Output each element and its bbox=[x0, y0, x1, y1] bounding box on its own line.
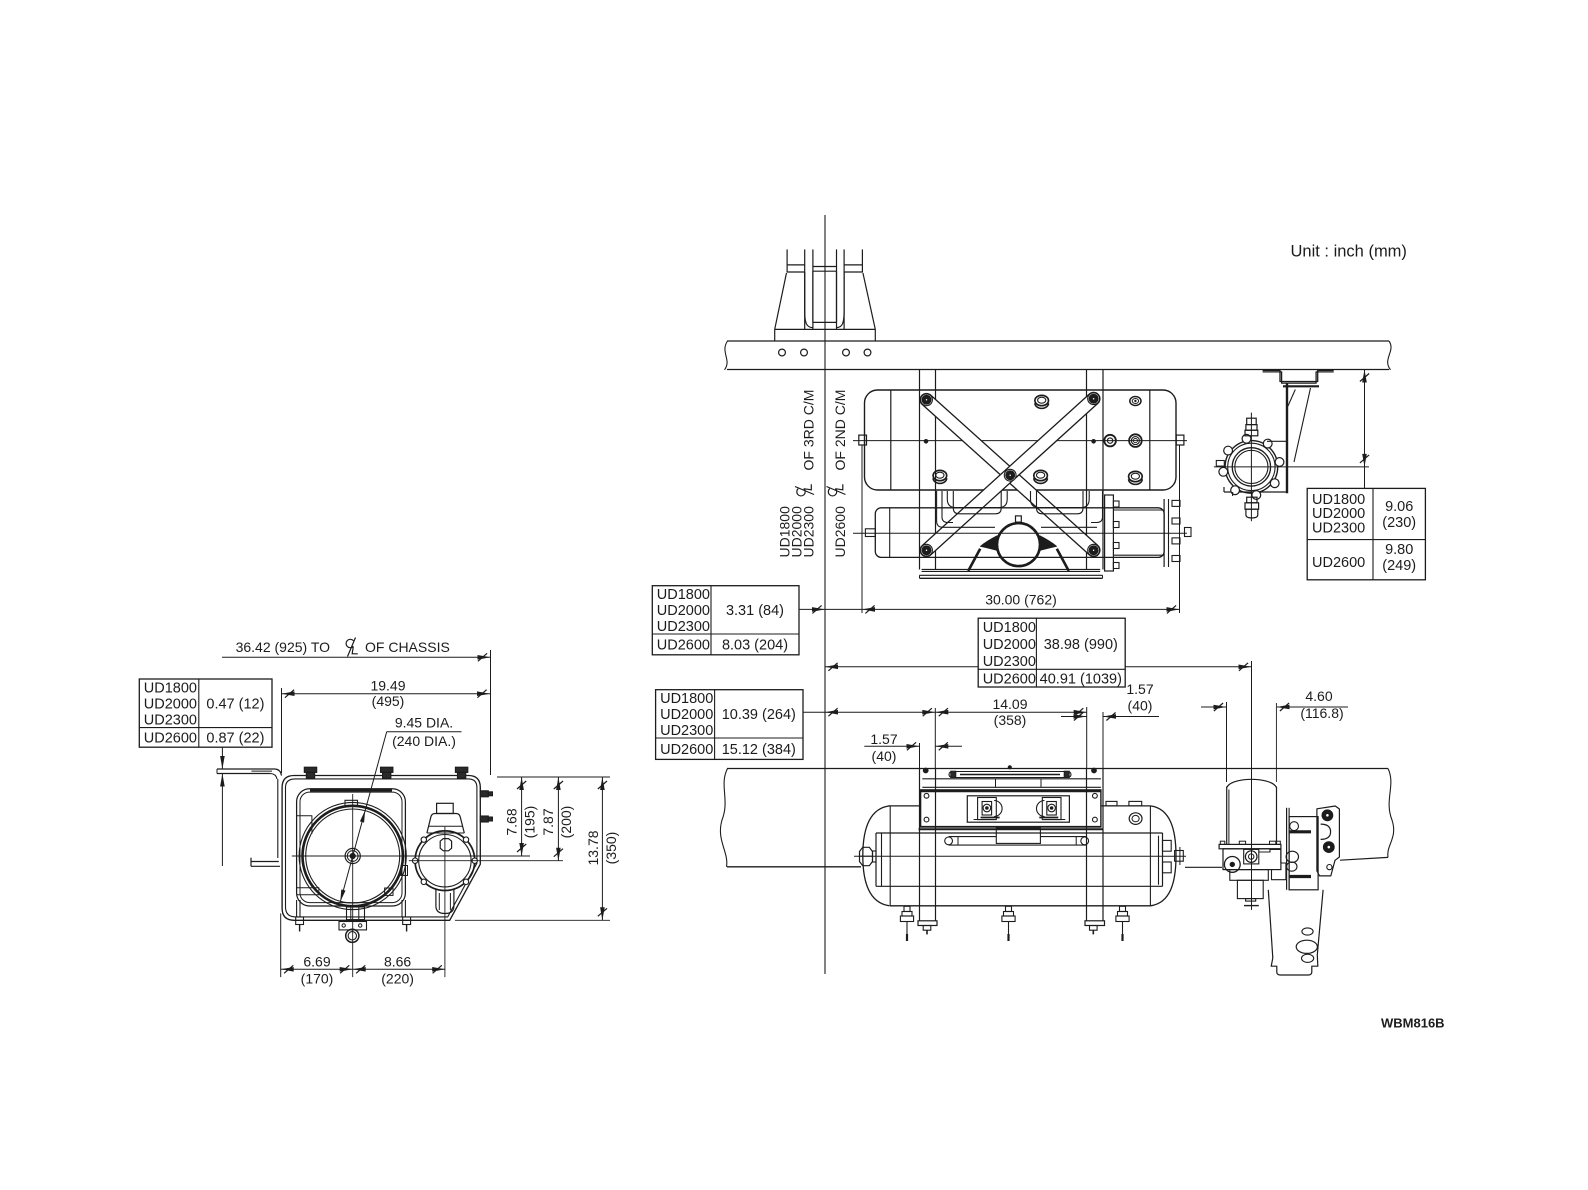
center drain (left view) bbox=[347, 907, 365, 920]
bracket vertical face bbox=[277, 779, 279, 858]
svg-text:3.31 (84): 3.31 (84) bbox=[726, 603, 784, 619]
svg-text:UD1800: UD1800 bbox=[144, 680, 197, 696]
governor right steps bbox=[1259, 849, 1286, 879]
svg-text:(195): (195) bbox=[522, 806, 538, 839]
saddle lens on tank top bbox=[949, 772, 1071, 778]
tank saddle frame (left view) bbox=[297, 789, 406, 906]
svg-text:UD2600: UD2600 bbox=[660, 742, 713, 758]
svg-text:UD2300: UD2300 bbox=[144, 713, 197, 729]
tank oval port bbox=[1129, 813, 1142, 825]
dryer centerline bbox=[1251, 779, 1253, 910]
svg-text:(240 DIA.): (240 DIA.) bbox=[392, 733, 456, 749]
rail bolt holes bbox=[779, 349, 786, 356]
dim 10.39 + 14.09 line bbox=[803, 711, 1087, 713]
upper tank centerline bbox=[853, 440, 1187, 442]
side rail right break bbox=[1388, 769, 1394, 858]
main vertical centerline (C/L of C/M) bbox=[824, 215, 826, 974]
svg-text:UD2600: UD2600 bbox=[657, 638, 710, 654]
bracket block bbox=[1289, 817, 1318, 890]
strap foot plugs (left view) bbox=[296, 917, 304, 925]
upper air tank (top view) bbox=[865, 390, 1177, 490]
svg-text:7.87: 7.87 bbox=[540, 808, 556, 835]
tank mounting straps (top view) bbox=[919, 370, 921, 570]
flanged port (gladhand) on bracket bbox=[1225, 441, 1278, 494]
rail left break line bbox=[725, 341, 728, 370]
svg-text:(350): (350) bbox=[603, 832, 619, 865]
main air tank (side view) bbox=[889, 805, 921, 807]
front tank right fitting bbox=[1175, 851, 1184, 862]
bell wings bbox=[981, 536, 999, 551]
left view extension lines bbox=[497, 776, 610, 778]
dim 36.42 TO C/L OF CHASSIS bbox=[222, 656, 491, 658]
tank ports bbox=[1035, 395, 1049, 405]
base plate bbox=[922, 569, 1101, 571]
governor pulley bbox=[1224, 857, 1240, 873]
chassis rail (side view) bbox=[727, 768, 1388, 770]
flange bracket plate bbox=[1286, 383, 1288, 493]
svg-text:4.60: 4.60 bbox=[1305, 688, 1332, 704]
side rail left break bbox=[720, 769, 727, 867]
svg-text:13.78: 13.78 bbox=[585, 830, 601, 865]
dim 1.57 right bbox=[1061, 716, 1087, 718]
svg-text:(200): (200) bbox=[558, 806, 574, 839]
dim 30.00 (762) bbox=[861, 445, 863, 613]
svg-text:9.45 DIA.: 9.45 DIA. bbox=[395, 715, 453, 731]
drain valves bbox=[904, 906, 910, 911]
governor lower blocks bbox=[1230, 870, 1269, 881]
svg-text:UD1800: UD1800 bbox=[983, 620, 1036, 636]
valve dome bbox=[427, 814, 464, 834]
circle crosshair bbox=[292, 855, 530, 857]
tank end stubs bbox=[859, 435, 867, 445]
flange top stem bbox=[1247, 418, 1257, 424]
svg-text:WBM816B: WBM816B bbox=[1381, 1016, 1445, 1031]
svg-text:(358): (358) bbox=[994, 712, 1027, 728]
front tank left stub bbox=[865, 529, 875, 537]
extension lines straps bbox=[919, 743, 921, 769]
flange to plate line bbox=[1267, 440, 1287, 442]
svg-text:(40): (40) bbox=[872, 748, 897, 764]
dim 13.78 (350) bbox=[601, 777, 603, 920]
enclosure top bolts bbox=[304, 767, 316, 772]
0.47 dim leader bbox=[221, 747, 223, 769]
svg-text:UD2600: UD2600 bbox=[832, 506, 848, 558]
dim 9.06/9.80 vertical bbox=[1364, 370, 1366, 489]
front tank right section cylinder bbox=[1113, 509, 1164, 511]
rail right break line bbox=[1388, 341, 1391, 370]
tiny rail mark bbox=[1008, 766, 1011, 769]
front tank right flange with bolts bbox=[1163, 499, 1165, 567]
piping elbows below tank bbox=[937, 491, 995, 527]
svg-text:OF 3RD C/M: OF 3RD C/M bbox=[801, 390, 817, 471]
dryer bracket face bbox=[1286, 808, 1288, 890]
svg-text:19.49: 19.49 bbox=[370, 678, 405, 694]
svg-text:UD2000: UD2000 bbox=[660, 707, 713, 723]
valve pendant bbox=[436, 889, 454, 914]
straps (side view) bbox=[919, 769, 921, 921]
svg-text:(170): (170) bbox=[301, 971, 334, 987]
table 3.31/8.03 bbox=[652, 586, 799, 655]
svg-text:Unit : inch (mm): Unit : inch (mm) bbox=[1291, 243, 1407, 261]
dim 38.98 line bbox=[825, 666, 978, 668]
valve crosshair bbox=[409, 860, 563, 862]
svg-text:UD2300: UD2300 bbox=[801, 506, 817, 558]
svg-text:40.91 (1039): 40.91 (1039) bbox=[1040, 671, 1122, 687]
main tank end circle bbox=[299, 802, 406, 909]
9.45 DIA leader bbox=[340, 732, 386, 902]
side view tank centerline bbox=[854, 855, 1186, 857]
air dryer cylinder bbox=[1227, 779, 1277, 787]
svg-text:9.06: 9.06 bbox=[1385, 499, 1413, 515]
front tank right stubs bbox=[1163, 840, 1172, 851]
flange centerline bbox=[1214, 466, 1369, 468]
dim 1.57 left bbox=[864, 745, 919, 747]
svg-text:OF 2ND C/M: OF 2ND C/M bbox=[832, 390, 848, 471]
gusset diagonals bbox=[1288, 390, 1295, 407]
front tank right stub bbox=[1185, 528, 1192, 537]
dim 19.49 (495) bbox=[282, 693, 491, 695]
saddle corner brackets bbox=[297, 816, 312, 834]
svg-text:(220): (220) bbox=[381, 971, 414, 987]
svg-text:UD2300: UD2300 bbox=[983, 654, 1036, 670]
enclosure cover outline bbox=[281, 775, 283, 777]
table 38.98/40.91 bbox=[978, 618, 1125, 687]
tank hub bbox=[345, 848, 360, 863]
governor assembly bbox=[1219, 844, 1281, 848]
dim 4.60 (116.8) bbox=[1201, 706, 1227, 708]
svg-text:14.09: 14.09 bbox=[992, 696, 1027, 712]
flange bottom stem bbox=[1247, 497, 1257, 503]
plate hanging tab bbox=[996, 828, 1040, 843]
svg-text:UD2000: UD2000 bbox=[657, 603, 710, 619]
tank top seam tab bbox=[345, 800, 358, 806]
svg-text:(249): (249) bbox=[1382, 558, 1416, 574]
bracket bottom lip bbox=[251, 861, 279, 863]
svg-text:(230): (230) bbox=[1382, 515, 1416, 531]
front tank centerline bbox=[853, 532, 1187, 534]
leaf spring hanger bbox=[786, 249, 788, 272]
dim 7.68 (195) bbox=[521, 777, 523, 856]
svg-text:7.68: 7.68 bbox=[504, 808, 520, 835]
long pipe under plate bbox=[949, 836, 997, 838]
air dryer / valve unit (left view) bbox=[415, 831, 475, 891]
tank top weld tabs bbox=[1106, 801, 1117, 806]
svg-text:10.39 (264): 10.39 (264) bbox=[722, 707, 796, 723]
flange bottom bracket bbox=[1224, 491, 1287, 493]
governor boss bbox=[1244, 849, 1259, 864]
svg-text:1.57: 1.57 bbox=[870, 731, 897, 747]
plate window with clamps bbox=[967, 796, 1069, 822]
front tank mid flange with bolts bbox=[1105, 495, 1114, 571]
svg-text:(116.8): (116.8) bbox=[1300, 705, 1343, 721]
hat bracket on rail bbox=[1263, 370, 1334, 381]
dims 6.69 / 8.66 bbox=[280, 913, 282, 977]
dim 7.87 (200) bbox=[557, 777, 559, 861]
front tank (side view) bbox=[876, 832, 1163, 834]
svg-text:UD2300: UD2300 bbox=[1312, 521, 1365, 537]
svg-text:UD2300: UD2300 bbox=[660, 723, 713, 739]
main mounting plate (side view) bbox=[921, 790, 1101, 827]
front tank left hex fitting bbox=[860, 847, 873, 865]
svg-text:0.47 (12): 0.47 (12) bbox=[206, 697, 264, 713]
svg-text:30.00 (762): 30.00 (762) bbox=[985, 592, 1057, 608]
svg-text:15.12 (384): 15.12 (384) bbox=[722, 742, 796, 758]
flange left tab bbox=[1216, 461, 1224, 467]
svg-text:UD2600: UD2600 bbox=[1312, 555, 1365, 571]
svg-text:UD2000: UD2000 bbox=[144, 697, 197, 713]
bracket side plate with bolts bbox=[1317, 806, 1340, 876]
svg-text:(40): (40) bbox=[1128, 698, 1153, 714]
chassis rail (top view) bbox=[727, 340, 1389, 342]
upper band plate bbox=[922, 778, 1101, 780]
svg-text:OF CHASSIS: OF CHASSIS bbox=[365, 639, 450, 655]
svg-text:UD2600: UD2600 bbox=[144, 731, 197, 747]
X cross-member brace bbox=[920, 393, 1100, 556]
svg-text:(495): (495) bbox=[372, 693, 405, 709]
svg-text:1.57: 1.57 bbox=[1126, 681, 1153, 697]
svg-text:UD1800: UD1800 bbox=[660, 691, 713, 707]
table 0.47/0.87 bbox=[139, 679, 272, 747]
enclosure right bolts bbox=[480, 791, 488, 797]
bell legs bbox=[968, 549, 980, 571]
svg-text:9.80: 9.80 bbox=[1385, 542, 1413, 558]
bell housing / compressor mount bbox=[997, 523, 1040, 566]
valve hex bbox=[440, 839, 451, 851]
svg-text:8.66: 8.66 bbox=[384, 954, 411, 970]
svg-text:UD1800: UD1800 bbox=[657, 587, 710, 603]
svg-text:UD2000: UD2000 bbox=[983, 637, 1036, 653]
table 10.39/15.12 bbox=[656, 690, 803, 760]
saddle straps to base bbox=[296, 900, 298, 917]
svg-text:UD2600: UD2600 bbox=[983, 671, 1036, 687]
svg-text:UD2300: UD2300 bbox=[657, 619, 710, 635]
svg-text:0.87 (22): 0.87 (22) bbox=[206, 731, 264, 747]
svg-text:38.98 (990): 38.98 (990) bbox=[1044, 637, 1118, 653]
mounting bracket lip (left view) bbox=[217, 768, 275, 770]
strap foot plugs bbox=[923, 926, 931, 931]
front tank (top view) bbox=[875, 508, 1164, 558]
table 9.06/9.80 bbox=[1307, 488, 1425, 579]
lower bracket arm bbox=[1268, 890, 1273, 958]
svg-text:8.03 (204): 8.03 (204) bbox=[722, 638, 788, 654]
svg-text:6.69: 6.69 bbox=[303, 954, 330, 970]
governor knobs bbox=[1286, 851, 1298, 862]
svg-text:36.42 (925) TO: 36.42 (925) TO bbox=[236, 639, 331, 655]
bracket foot bbox=[1271, 955, 1318, 975]
